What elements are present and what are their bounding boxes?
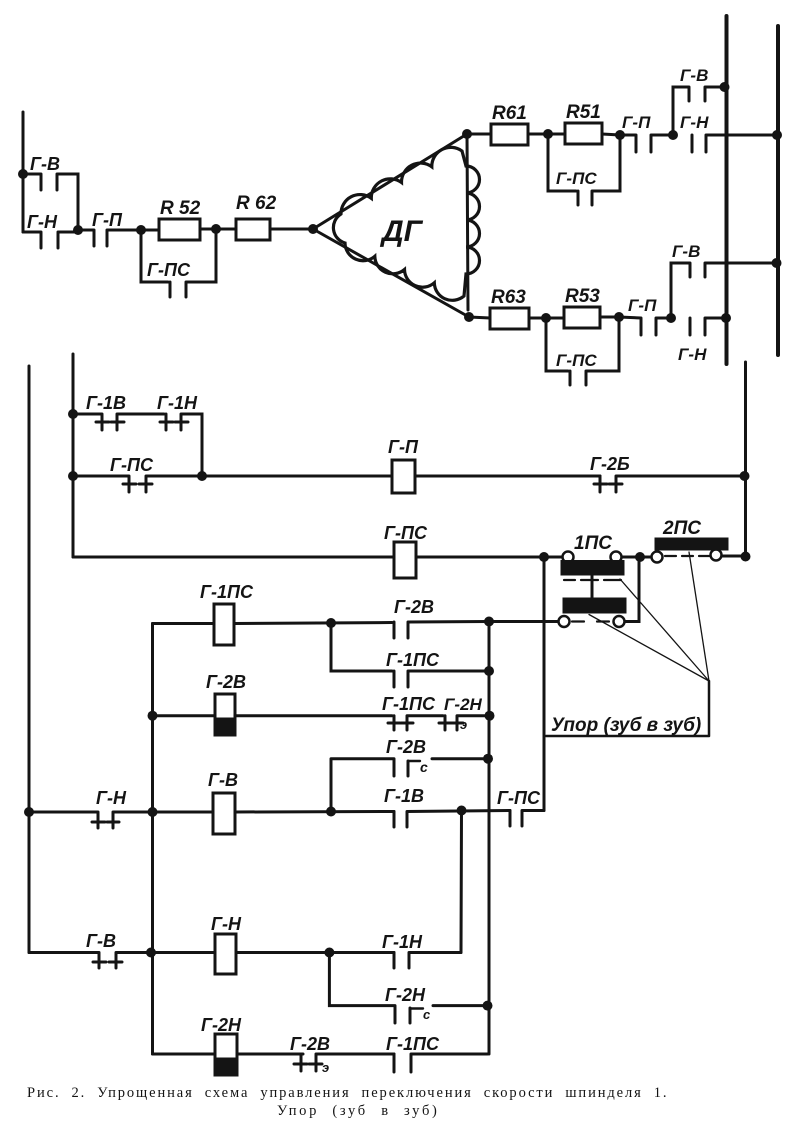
contact Г-2В (row C, delayed) [331, 737, 488, 812]
switch 1ПС [559, 533, 626, 627]
resistor R61 [467, 103, 565, 145]
svg-text:Г-ПС: Г-ПС [556, 351, 597, 370]
node Г-В to bus1 [720, 82, 730, 92]
svg-text:Г-1ПС: Г-1ПС [200, 582, 254, 602]
contact Г-В (top-left upper) [23, 154, 78, 230]
node between R52 and R62 [211, 224, 221, 234]
node branch671 right [484, 666, 494, 676]
node row B right [485, 711, 495, 721]
resistor R51 [565, 102, 620, 144]
contact Г-Н (lower right straight) [678, 318, 727, 364]
node merge Г-В/Г-Н [73, 225, 83, 235]
svg-text:Г-ПС: Г-ПС [497, 788, 541, 808]
resistor R62 [216, 193, 313, 240]
contact Г-ПС (row D) [497, 788, 544, 826]
contact Г-В (upper right branch) [673, 66, 727, 135]
relay coil Г-Н (row E) [151, 914, 394, 974]
svg-text:R 52: R 52 [160, 198, 201, 219]
node generator apex [308, 224, 318, 234]
svg-text:R 62: R 62 [236, 193, 277, 214]
svg-text:Г-2Б: Г-2Б [590, 454, 630, 474]
contact Г-ПС bypass around R51 [548, 134, 620, 205]
svg-text:Г-П: Г-П [92, 210, 123, 230]
row A: coil Г-1ПС [153, 582, 393, 645]
node row A right [484, 617, 494, 627]
node row E mid [324, 948, 334, 958]
relay coil Г-2В (row B, latched) [153, 672, 393, 735]
node rail1 row D [24, 807, 34, 817]
wire row2 to coil [202, 475, 392, 478]
resistor R52 [141, 198, 216, 240]
node between R61 and R51 [543, 129, 553, 139]
relay coil Г-ПС [384, 523, 428, 578]
node row C right [483, 754, 493, 764]
svg-text:Упор (зуб в зуб): Упор (зуб в зуб) [551, 715, 701, 736]
relay coil Г-В (row D) [153, 770, 395, 834]
contact Г-П (top-left) [78, 210, 141, 246]
svg-text:с: с [420, 759, 428, 775]
svg-text:Г-ПС: Г-ПС [384, 523, 428, 543]
node rail3 row D [148, 807, 158, 817]
wire vertical x461 (row D to row E) [460, 811, 464, 953]
svg-text:Г-Н: Г-Н [96, 788, 127, 808]
svg-text:Г-2В: Г-2В [394, 597, 434, 617]
svg-text:Г-2Н: Г-2Н [385, 985, 426, 1005]
contact Г-П (upper right) [620, 113, 673, 152]
contact Г-1ПС (branch 671) [331, 623, 489, 687]
node row A mid [326, 618, 336, 628]
svg-text:Упор (зуб в зуб): Упор (зуб в зуб) [277, 1103, 440, 1119]
node rail3 row B [148, 711, 158, 721]
contact Г-2В (row G) [290, 1034, 394, 1075]
svg-text:Г-1Н: Г-1Н [382, 932, 423, 952]
svg-text:Г-1В: Г-1В [384, 786, 424, 806]
svg-text:э: э [460, 717, 467, 732]
svg-text:Г-П: Г-П [622, 113, 651, 132]
svg-text:Г-1ПС: Г-1ПС [386, 1034, 440, 1054]
svg-text:2ПС: 2ПС [662, 518, 701, 539]
wire rail 3 (middle ladder left) [151, 624, 154, 1055]
wire right vertical feeder [744, 362, 747, 557]
svg-text:Г-2В: Г-2В [206, 672, 246, 692]
svg-text:R51: R51 [566, 102, 601, 123]
relay coil Г-2Н (row G, latched) [153, 1015, 304, 1075]
node after R53 [614, 312, 624, 322]
node row E rail3 [146, 948, 156, 958]
node row D right [457, 806, 467, 816]
node row3 mid [635, 552, 645, 562]
node between R63 and R53 [541, 313, 551, 323]
node generator top terminal [462, 129, 472, 139]
svg-text:Г-ПС: Г-ПС [147, 260, 191, 280]
contact Г-Н (row D) [29, 788, 153, 828]
node left feeder junction [18, 169, 28, 179]
contact Г-2Б (row2) [590, 454, 746, 492]
svg-text:Г-В: Г-В [680, 66, 708, 85]
svg-text:Г-1ПС: Г-1ПС [382, 694, 436, 714]
wire row2 coil to Г-2Б [415, 475, 600, 478]
node row3 left of 1ПС [539, 552, 549, 562]
wire row3 coil to switch [416, 556, 562, 559]
svg-text:ДГ: ДГ [379, 215, 424, 248]
svg-text:Г-1Н: Г-1Н [157, 393, 198, 413]
node split Г-В/Г-Н upper [668, 130, 678, 140]
contact Г-1Н (row1) [157, 393, 202, 476]
generator winding chord [467, 134, 468, 310]
svg-text:Г-Н: Г-Н [678, 345, 707, 364]
contact Г-П (lower right) [619, 296, 671, 335]
svg-text:э: э [322, 1060, 329, 1075]
svg-text:Г-2Н: Г-2Н [444, 695, 483, 714]
resistor R63 [469, 287, 564, 329]
svg-text:Г-Н: Г-Н [211, 914, 242, 934]
contact Г-ПС (row2) [73, 455, 202, 492]
svg-text:Г-Н: Г-Н [680, 113, 709, 132]
svg-text:Г-П: Г-П [628, 296, 657, 315]
contact Г-2Н (row B) [439, 695, 490, 732]
node row2 right [740, 471, 750, 481]
svg-text:Г-В: Г-В [86, 931, 116, 951]
contact Г-Н (upper right straight) [680, 113, 778, 152]
contact Г-В (row E) [29, 931, 151, 968]
resistor R53 [564, 286, 619, 328]
svg-text:Г-Н: Г-Н [27, 212, 58, 232]
pointer lines to stop note [589, 552, 709, 681]
node generator bottom terminal [464, 312, 474, 322]
node rail2 row2 [68, 471, 78, 481]
svg-text:Г-ПС: Г-ПС [110, 455, 154, 475]
generator ДГ cloud [333, 147, 479, 300]
svg-text:Г-В: Г-В [208, 770, 238, 790]
svg-text:R53: R53 [565, 286, 600, 307]
svg-text:Г-1В: Г-1В [86, 393, 126, 413]
contact Г-Н (top-left lower) [23, 212, 78, 248]
wire row A to 1ПС lower terminals [489, 557, 639, 622]
svg-text:Г-ПС: Г-ПС [556, 169, 597, 188]
svg-text:Г-2В: Г-2В [386, 737, 426, 757]
svg-text:с: с [423, 1007, 431, 1022]
label note Упор (зуб в зуб) [546, 681, 709, 736]
svg-text:Г-П: Г-П [388, 437, 419, 457]
wire apex to top branch [313, 134, 467, 229]
node after R51 [615, 130, 625, 140]
svg-text:R61: R61 [492, 103, 527, 124]
wire row3 left [73, 556, 394, 559]
node row3 right [741, 552, 751, 562]
node split Г-В/Г-Н lower [666, 313, 676, 323]
svg-text:R63: R63 [491, 287, 526, 308]
node row2 branch join [197, 471, 207, 481]
wire apex to bottom branch [313, 229, 469, 317]
svg-text:Г-2Н: Г-2Н [201, 1015, 242, 1035]
node Г-Н to bus2 [772, 130, 782, 140]
node before R52 [136, 225, 146, 235]
node rail2 row1 [68, 409, 78, 419]
wire vertical x544 (1ПС to row D) [543, 557, 546, 811]
contact Г-1Н (row E) [382, 932, 461, 968]
contact Г-1ПС (row B) [382, 694, 443, 730]
node Г-В lower to bus2 [772, 258, 782, 268]
svg-text:Рис. 2. Упрощенная схема управ: Рис. 2. Упрощенная схема управления пере… [27, 1085, 668, 1101]
contact Г-ПС bypass around R53 [546, 317, 619, 385]
relay coil Г-П [388, 437, 419, 493]
contact Г-В (lower right branch) [671, 242, 778, 318]
contact Г-2В (row A) [394, 597, 489, 638]
wire left rail 1 [28, 366, 31, 953]
wire left feeder vertical [22, 112, 25, 232]
contact Г-1В (row1) [73, 393, 164, 430]
svg-text:Г-2В: Г-2В [290, 1034, 330, 1054]
wire left rail 2 [72, 354, 75, 557]
wire right vertical x489 [488, 622, 491, 1055]
bus line 1 [725, 16, 729, 364]
svg-text:1ПС: 1ПС [574, 533, 612, 554]
contact Г-2Н (row F) [329, 953, 487, 1024]
node row F right [483, 1001, 493, 1011]
node Г-Н lower to bus1 [721, 313, 731, 323]
bus line 2 [776, 26, 780, 355]
svg-text:Г-В: Г-В [30, 154, 60, 174]
svg-text:Г-1ПС: Г-1ПС [386, 650, 440, 670]
svg-text:Г-В: Г-В [672, 242, 700, 261]
node row D mid [326, 807, 336, 817]
wire row3 between circles [622, 556, 651, 559]
contact Г-ПС bypass around R52 [141, 229, 216, 297]
switch 2ПС [652, 518, 746, 563]
contact Г-1В (row D) [384, 786, 510, 827]
contact Г-1ПС (row G) [386, 1034, 488, 1072]
